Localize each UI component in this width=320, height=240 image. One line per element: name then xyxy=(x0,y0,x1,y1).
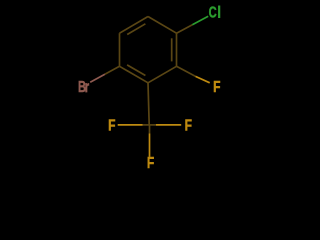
svg-text:F: F xyxy=(147,154,154,172)
bond C2-Cl carbon half xyxy=(177,25,193,33)
bond CF3-Fbottom carbon half xyxy=(149,125,151,134)
wire: ring edge V3-V4 xyxy=(148,66,177,83)
wire: ring edge V2-V3 inner double line xyxy=(171,38,173,61)
wire: ring edge V1-V2 xyxy=(148,17,177,34)
bond C4-CF3 stem xyxy=(148,83,149,125)
wire: ring edge V4-V5 xyxy=(120,66,149,83)
bond C5-Br carbon half xyxy=(105,66,120,74)
bond C3-F carbon half xyxy=(177,66,196,76)
svg-text:C: C xyxy=(209,4,217,21)
benzene ring xyxy=(105,17,196,134)
wire: ring edge V6-V1 inner double line xyxy=(127,24,145,35)
wire: ring edge V6-V1 xyxy=(120,17,149,34)
bond CF3-Fright carbon half xyxy=(149,124,156,126)
svg-text:r: r xyxy=(85,78,90,95)
bond Cl half (green) xyxy=(192,16,208,24)
svg-text:F: F xyxy=(213,78,220,96)
wire: ring edge V4-V5 inner double line xyxy=(127,65,145,76)
svg-text:F: F xyxy=(185,116,192,134)
bond F bottom half (gold) xyxy=(149,134,151,157)
bond F right half (gold) xyxy=(156,124,181,126)
wire: ring edge V2-V3 xyxy=(176,33,178,66)
wire: ring edge V5-V6 xyxy=(119,33,121,66)
bond F left half (gold) xyxy=(118,124,143,126)
bond CF3-Fleft carbon half xyxy=(143,124,150,126)
svg-text:F: F xyxy=(108,116,115,134)
svg-text:l: l xyxy=(218,4,221,21)
bond Br half (red-brown) xyxy=(90,74,105,82)
bond F ring half (gold) xyxy=(196,76,210,82)
